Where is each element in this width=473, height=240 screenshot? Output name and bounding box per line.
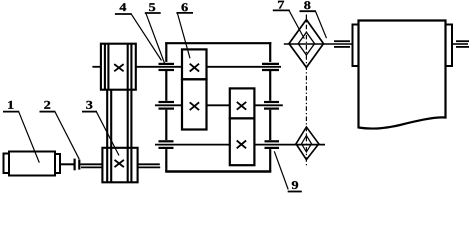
wire pulley shaft right xyxy=(138,164,160,167)
wire output shaft III xyxy=(155,144,325,146)
leader line 5 xyxy=(146,14,165,65)
bearing output shaft right xyxy=(265,141,280,148)
label 6 xyxy=(176,3,193,13)
bearing intermediate shaft right xyxy=(264,102,279,109)
motor M (electric motor, item 1) xyxy=(4,152,61,176)
wire pulley shaft left xyxy=(80,164,102,167)
x-mark gear Z2 xyxy=(190,102,199,110)
belt double lines (belt drive, item 3) xyxy=(105,44,131,183)
wire upper bevel horizontal shaft xyxy=(284,43,353,45)
bearing drum shaft right xyxy=(456,41,469,47)
drum body with break line xyxy=(359,21,446,129)
vertical shaft axis dash-dot xyxy=(305,15,307,167)
leader line 1 xyxy=(19,112,39,162)
x-mark gear Z1 xyxy=(190,64,199,72)
gear Z3 on intermediate shaft xyxy=(230,88,255,118)
x-mark gear Z3 xyxy=(237,102,246,110)
label 2 xyxy=(40,101,56,112)
label 3 xyxy=(82,101,97,112)
leader line 7 xyxy=(289,11,304,39)
bearing drum shaft left xyxy=(334,41,350,47)
drum right flange xyxy=(446,25,453,67)
wire intermediate shaft II xyxy=(155,104,283,106)
label 5 xyxy=(145,3,161,13)
bearing input shaft left xyxy=(159,64,175,70)
gearbox left wall xyxy=(165,42,167,171)
coupling (item 2) xyxy=(75,159,80,171)
wire motor shaft xyxy=(60,163,74,165)
label 7 xyxy=(273,1,290,11)
gear Z4 on output shaft xyxy=(230,118,255,165)
wire drum shaft right stub xyxy=(452,43,468,45)
leader line 3 xyxy=(97,112,119,155)
gear Z2 on intermediate shaft xyxy=(182,79,207,129)
drum left flange xyxy=(353,25,359,67)
x-mark upper pulley hub xyxy=(114,64,123,71)
label 8 xyxy=(300,1,317,11)
label 4 xyxy=(115,3,132,14)
gearbox housing xyxy=(165,43,271,171)
bearing input shaft right xyxy=(262,64,279,70)
label 1 xyxy=(3,101,19,112)
wire input shaft stub left xyxy=(92,66,100,68)
wire input shaft I right xyxy=(207,66,282,68)
bearing intermediate shaft left xyxy=(159,102,175,109)
bevel gear pair upper (items 7,8) xyxy=(289,20,324,68)
wire input shaft I xyxy=(136,66,182,68)
leader line 9 xyxy=(274,151,288,189)
pulley upper (driven pulley) xyxy=(101,44,136,90)
leader line 2 xyxy=(55,112,79,159)
pulley lower (driving pulley) xyxy=(102,148,137,183)
leader line 4 xyxy=(131,14,161,60)
gear Z1 on input shaft (item 6) xyxy=(182,49,207,79)
bevel gear pair lower (item 9 area) xyxy=(296,127,319,160)
leader line 6 xyxy=(178,14,191,59)
x-mark lower pulley hub xyxy=(115,160,124,167)
gearbox right wall xyxy=(269,42,271,171)
x-mark gear Z4 xyxy=(237,141,246,149)
leader line 8 xyxy=(316,12,327,39)
bearing output shaft left xyxy=(159,141,174,148)
label 9 xyxy=(288,181,302,191)
